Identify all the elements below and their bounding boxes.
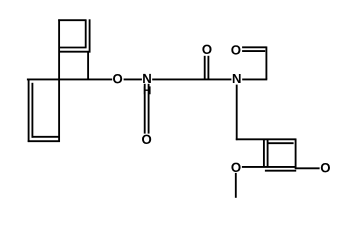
- wire bond ether O to N: [124, 78, 142, 80]
- node hydroxyl oxygen O: [321, 163, 330, 172]
- wire ring right edge: [295, 138, 297, 169]
- node ether oxygen O: [113, 74, 122, 83]
- wire ring top inner double-bond line: [268, 142, 294, 144]
- wire ring left edge: [263, 139, 265, 167]
- wire N-oxide N=O double bond line 1: [144, 84, 146, 134]
- node hydroxylamine nitrogen N: [143, 74, 151, 83]
- wire main chain bond to ether O: [27, 78, 112, 80]
- wire double-bond partner of shared edge: [59, 51, 90, 53]
- wire top edge of top-left square ring: [58, 19, 86, 21]
- wire carbonyl C=O double bond line 2: [207, 56, 209, 79]
- wire bond ring to hydroxyl O: [295, 167, 319, 169]
- wire methoxy O-CH3 bond: [235, 173, 237, 198]
- wire aldehyde C=O double bond line 2: [242, 50, 265, 52]
- node N-oxide oxygen O: [142, 135, 151, 144]
- wire N-oxide N=O double bond line 2: [148, 84, 150, 134]
- wire benzylic CH2 to ring plus ring top edge: [236, 138, 296, 140]
- wire left edge of lower-left square ring: [28, 79, 30, 143]
- wire outer double-bond line, right edge of top square: [89, 19, 91, 52]
- wire inner double-bond line, right edge of top square: [85, 20, 87, 47]
- wire aldehyde C=O double bond line 1: [242, 46, 266, 48]
- node amide nitrogen N: [233, 74, 241, 83]
- wire ring left inner double-bond line: [267, 139, 269, 167]
- node carbonyl oxygen O: [202, 45, 211, 54]
- wire bond amide N to aldehyde CH2: [242, 78, 267, 80]
- wire carbonyl C=O double bond line 1: [204, 56, 206, 79]
- wire left vertical edge of fused square rings: [58, 19, 60, 142]
- wire ring bottom edge plus bond from methoxy O: [242, 166, 297, 168]
- wire bottom outer edge of lower-left square: [28, 140, 60, 142]
- wire amide N down to benzylic CH2: [236, 85, 238, 141]
- wire bottom inner double-bond line of lower-left square: [32, 136, 60, 138]
- node methoxy oxygen O: [231, 163, 240, 172]
- node aldehyde oxygen O: [231, 45, 240, 54]
- node hydrogen H on nitrogen: [144, 86, 151, 94]
- wire right edge of middle square down to chain: [87, 51, 89, 79]
- wire bond N through carbonyl C to amide N: [152, 78, 231, 80]
- wire ring bottom outer double-bond line: [265, 170, 296, 172]
- wire aldehyde CH2-CH vertical bond: [265, 46, 267, 79]
- wire inner left double-bond line of lower-left square: [31, 83, 33, 138]
- wire shared edge between stacked squares: [59, 47, 86, 49]
